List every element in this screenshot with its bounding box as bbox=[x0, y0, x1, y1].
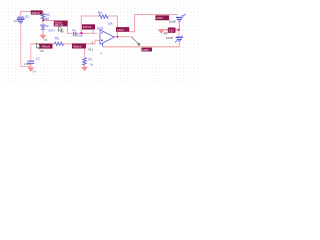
wire: V1 bottom long left vertical down and jog right to ground bbox=[21, 24, 31, 66]
svg-text:R1: R1 bbox=[55, 36, 59, 40]
resistor R4 (horizontal zigzag, feedback) bbox=[99, 15, 108, 19]
check glyph near S2 bbox=[182, 14, 186, 17]
grid dots (decorative) bbox=[0, 0, 200, 83]
cursor near box2 bbox=[58, 26, 64, 33]
wire: S2 bottom stub down to junction bbox=[178, 21, 180, 29]
svg-text:1k: 1k bbox=[90, 62, 94, 66]
svg-text:1.5uF: 1.5uF bbox=[24, 63, 31, 66]
probe label box5 (top right) bbox=[155, 15, 169, 20]
svg-text:10k: 10k bbox=[108, 21, 113, 25]
svg-text:497mV: 497mV bbox=[83, 25, 92, 29]
svg-text:15dB: 15dB bbox=[169, 20, 176, 24]
wire: output top route x=134.6 up and right along y=14.5 to S2 bbox=[129, 15, 178, 32]
probe label box4a with cursor bbox=[39, 44, 53, 49]
svg-text:741: 741 bbox=[88, 47, 93, 51]
wire: R2 mid tap to C1 (horizontal y=20.5 then down x=67.5 then right) bbox=[43, 20, 98, 34]
wire: R3 vertical below box4b bbox=[84, 49, 86, 67]
svg-text:10dB: 10dB bbox=[166, 36, 173, 40]
svg-text:1Vpk: 1Vpk bbox=[13, 20, 19, 23]
capacitor C1 (series, vertical plates) bbox=[73, 32, 76, 37]
svg-text:1.5V: 1.5V bbox=[168, 29, 174, 33]
ground G2 below R3 bbox=[81, 67, 88, 72]
probe label box6 bbox=[168, 28, 176, 33]
node dot at R2 tap bbox=[42, 20, 44, 22]
red probe arrow on right node bbox=[157, 29, 167, 35]
svg-text:C2: C2 bbox=[36, 56, 40, 60]
wire: R4 right to feedback right vertical down to output bbox=[108, 16, 117, 37]
svg-text:499mV: 499mV bbox=[32, 11, 41, 15]
svg-text:V1: V1 bbox=[25, 15, 29, 19]
wire: op-amp output run to probe point bbox=[114, 36, 133, 38]
cursor near box4a bbox=[37, 43, 44, 52]
svg-text:R3: R3 bbox=[88, 57, 92, 61]
svg-text:499mV: 499mV bbox=[42, 45, 51, 49]
probe label box1 bbox=[31, 10, 43, 14]
ground G3 below C2/V1 junction bbox=[27, 67, 36, 72]
wire: right horizontal y=29.7 to red probe arrow bbox=[160, 29, 179, 31]
capacitor C2 (vertical branch, horizontal plates) bbox=[27, 61, 34, 64]
svg-text:1N914: 1N914 bbox=[48, 29, 56, 32]
terminal S2 (top right, bars) bbox=[176, 17, 183, 22]
probe label box output bbox=[116, 27, 129, 32]
probe needle at output bbox=[132, 37, 140, 45]
output junction dot bbox=[116, 36, 118, 38]
svg-text:2.81V: 2.81V bbox=[156, 16, 163, 20]
terminal S3 (right column, bars) bbox=[175, 37, 183, 43]
source V1 bbox=[17, 17, 25, 24]
svg-text:0.00V: 0.00V bbox=[142, 48, 149, 52]
svg-text:1k: 1k bbox=[46, 24, 50, 28]
wire: feedback left vertical x=81.3 from inverting node up to R4 bbox=[81, 16, 99, 33]
probe label box3 bbox=[82, 24, 95, 29]
svg-text:R4: R4 bbox=[98, 11, 102, 15]
resistor R2 (vertical zigzag) bbox=[41, 14, 45, 20]
wire: non-inverting lower run from corner x=30.8 to op-amp bbox=[31, 40, 100, 60]
wire: junction down through S3 to bottom right corner and left run y=46.8 bbox=[103, 30, 179, 47]
diode D1 (vertical, to ground) bbox=[41, 24, 46, 30]
wire: C2 bottom stub bbox=[30, 64, 32, 67]
op-amp U1A bbox=[100, 30, 114, 47]
ground G1 below diode bbox=[40, 31, 48, 41]
junction node dot inverting input bbox=[80, 32, 82, 34]
probe label box7 (bottom run) bbox=[141, 48, 152, 52]
svg-text:2.81V: 2.81V bbox=[117, 28, 124, 32]
resistor R3 (vertical zigzag) bbox=[83, 58, 87, 65]
svg-text:U1A: U1A bbox=[97, 27, 104, 31]
svg-text:50: 50 bbox=[46, 17, 50, 21]
junction dot right column bbox=[177, 29, 179, 31]
resistor R1 (horizontal zigzag, lower run) bbox=[55, 42, 64, 46]
svg-text:C1: C1 bbox=[72, 28, 76, 32]
probe label box4b bbox=[72, 44, 86, 49]
wire: V1 top to R2 top (top-left run) bbox=[21, 12, 43, 17]
probe label box2 (two lines) bbox=[54, 21, 68, 27]
svg-text:499mV: 499mV bbox=[73, 44, 82, 48]
